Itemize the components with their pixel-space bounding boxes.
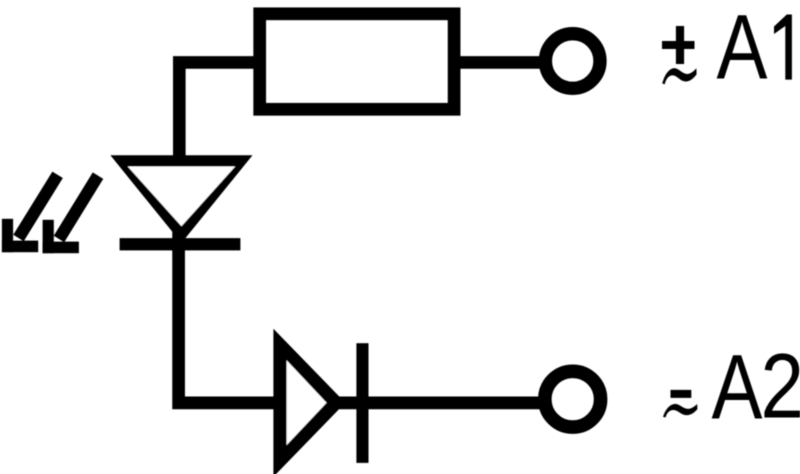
svg-text:2: 2 xyxy=(761,335,800,437)
svg-text:A: A xyxy=(717,0,768,98)
svg-text:A: A xyxy=(712,335,763,438)
